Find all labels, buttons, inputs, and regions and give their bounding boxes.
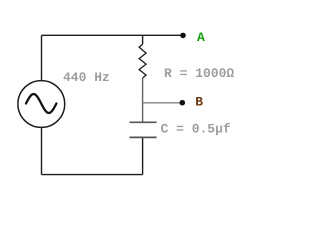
- capacitor C1 bottom plate: [130, 136, 157, 138]
- wire: top rail to node A: [42, 34, 184, 36]
- svg-text:B: B: [195, 94, 203, 109]
- capacitor C1 top plate: [130, 121, 157, 123]
- svg-text:C = 0.5µf: C = 0.5µf: [161, 122, 231, 137]
- wire: top rail stub to resistor: [142, 35, 144, 44]
- svg-text:A: A: [197, 30, 205, 45]
- svg-text:440 Hz: 440 Hz: [63, 70, 110, 85]
- AC source sine wave: [26, 94, 56, 113]
- AC source V1: [18, 81, 65, 128]
- node B dot: [180, 100, 186, 106]
- node A dot: [180, 33, 186, 39]
- wire: source bottom to bottom-left corner: [41, 128, 43, 175]
- wire: resistor bottom to capacitor (gray): [142, 78, 144, 122]
- svg-text:R = 1000Ω: R = 1000Ω: [164, 66, 234, 81]
- wire: node B tee (gray): [143, 102, 183, 104]
- wire: bottom rail: [42, 174, 143, 176]
- wire: capacitor bottom stub: [142, 138, 144, 175]
- resistor R1 zigzag: [139, 44, 146, 78]
- wire: source top to top-left corner: [41, 35, 43, 81]
